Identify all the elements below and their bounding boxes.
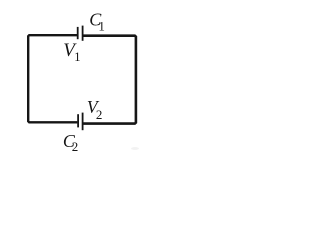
svg-text:2: 2 [96, 107, 103, 122]
svg-text:2: 2 [72, 139, 79, 154]
svg-text:1: 1 [74, 50, 80, 64]
capacitor C1: right plate [82, 26, 84, 41]
capacitor C1: left plate [77, 27, 79, 39]
scan smudge noise [131, 147, 139, 150]
svg-text:1: 1 [98, 18, 105, 33]
capacitor C2: right plate [82, 113, 84, 131]
wire: right loop (C1 right plate to top-right corner, down right side, to C2 right plate) [83, 36, 136, 124]
capacitor C2: left plate [77, 114, 79, 127]
wire: left loop (C1 left plate to top-left corner, down left side, to C2 left plate) [28, 35, 77, 122]
